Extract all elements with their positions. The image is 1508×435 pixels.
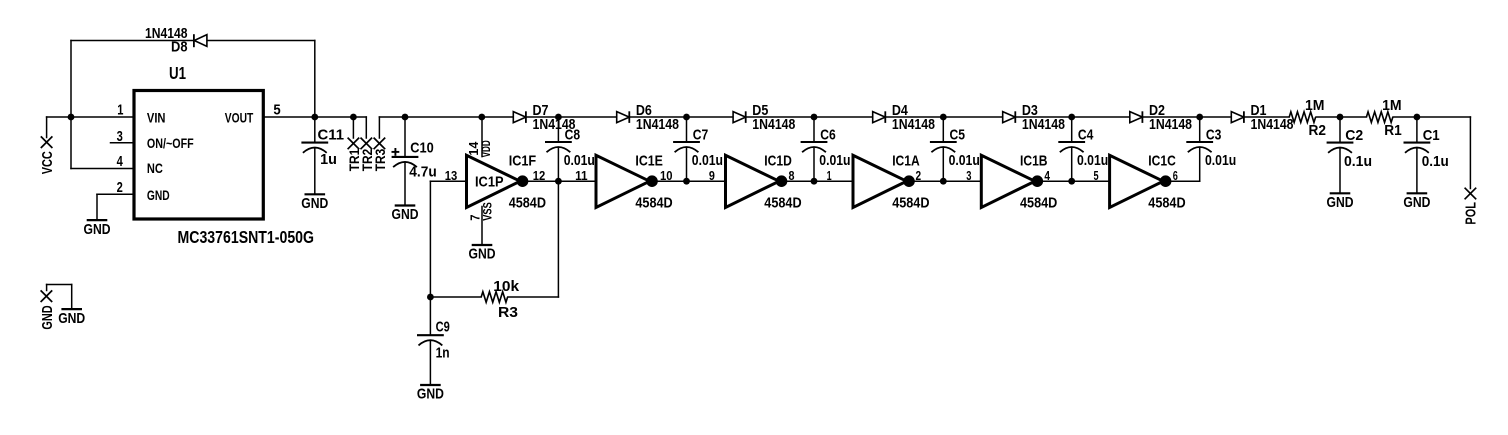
svg-text:D8: D8 — [171, 38, 188, 55]
svg-text:GND: GND — [1327, 194, 1354, 211]
svg-text:2: 2 — [916, 169, 922, 183]
svg-text:GND: GND — [301, 195, 328, 212]
svg-text:0.01u: 0.01u — [564, 152, 595, 169]
svg-text:0.01u: 0.01u — [819, 152, 850, 169]
svg-text:GND: GND — [84, 221, 111, 238]
svg-text:1N4148: 1N4148 — [752, 116, 795, 133]
svg-text:4.7u: 4.7u — [409, 163, 436, 180]
svg-text:ON/~OFF: ON/~OFF — [147, 135, 194, 151]
svg-text:IC1F: IC1F — [509, 152, 537, 169]
svg-text:1N4148: 1N4148 — [892, 116, 935, 133]
svg-text:0.1u: 0.1u — [1422, 153, 1449, 170]
svg-text:C6: C6 — [820, 126, 836, 143]
svg-text:GND: GND — [469, 246, 496, 263]
svg-text:4584D: 4584D — [892, 195, 929, 212]
svg-text:4: 4 — [1044, 169, 1050, 183]
svg-text:C4: C4 — [1078, 126, 1094, 143]
svg-text:POL: POL — [1462, 202, 1479, 225]
svg-text:1M: 1M — [1305, 97, 1325, 114]
svg-text:0.01u: 0.01u — [949, 152, 980, 169]
svg-text:C9: C9 — [436, 319, 450, 336]
svg-text:VSS: VSS — [483, 202, 495, 221]
svg-text:U1: U1 — [169, 63, 186, 83]
svg-text:GND: GND — [39, 305, 56, 329]
svg-text:IC1E: IC1E — [635, 152, 663, 169]
svg-text:C3: C3 — [1206, 126, 1222, 143]
svg-text:IC1B: IC1B — [1020, 152, 1048, 169]
svg-text:9: 9 — [709, 169, 715, 183]
svg-text:4584D: 4584D — [1148, 195, 1185, 212]
svg-text:2: 2 — [117, 179, 123, 196]
svg-text:C7: C7 — [693, 126, 709, 143]
svg-text:1u: 1u — [320, 151, 337, 168]
svg-text:4584D: 4584D — [764, 195, 801, 212]
svg-text:4584D: 4584D — [1020, 195, 1057, 212]
svg-text:10: 10 — [660, 169, 673, 183]
svg-text:5: 5 — [273, 102, 280, 119]
svg-text:R2: R2 — [1309, 122, 1327, 139]
svg-text:3: 3 — [966, 169, 971, 183]
svg-text:1: 1 — [827, 169, 832, 183]
svg-text:4584D: 4584D — [509, 195, 546, 212]
svg-text:IC1A: IC1A — [892, 152, 920, 169]
svg-text:6: 6 — [1173, 169, 1178, 183]
svg-text:NC: NC — [147, 160, 163, 176]
svg-text:3: 3 — [117, 128, 123, 145]
svg-text:C11: C11 — [318, 127, 345, 144]
svg-text:GND: GND — [392, 206, 419, 223]
svg-text:VOUT: VOUT — [225, 110, 254, 126]
svg-text:1N4148: 1N4148 — [533, 116, 576, 133]
svg-text:7: 7 — [469, 214, 483, 220]
svg-text:1: 1 — [117, 102, 123, 119]
svg-text:0.01u: 0.01u — [1077, 152, 1108, 169]
svg-text:1N4148: 1N4148 — [1251, 116, 1294, 133]
svg-text:MC33761SNT1-050G: MC33761SNT1-050G — [178, 227, 315, 247]
svg-text:11: 11 — [575, 169, 588, 183]
svg-text:13: 13 — [445, 169, 458, 183]
svg-text:TR3: TR3 — [373, 148, 388, 171]
svg-text:C1: C1 — [1423, 127, 1440, 144]
svg-text:1N4148: 1N4148 — [1149, 116, 1192, 133]
svg-text:IC1D: IC1D — [764, 152, 792, 169]
svg-text:0.01u: 0.01u — [1205, 152, 1236, 169]
svg-text:VIN: VIN — [147, 110, 166, 126]
svg-text:12: 12 — [533, 169, 546, 183]
svg-text:VCC: VCC — [39, 151, 56, 174]
svg-text:0.01u: 0.01u — [692, 152, 723, 169]
svg-text:14: 14 — [467, 142, 481, 156]
svg-text:10k: 10k — [493, 278, 519, 295]
svg-text:4: 4 — [117, 153, 124, 170]
svg-text:1N4148: 1N4148 — [1022, 116, 1065, 133]
svg-text:8: 8 — [789, 169, 795, 183]
svg-text:C2: C2 — [1345, 127, 1363, 144]
svg-text:C5: C5 — [950, 126, 966, 143]
svg-text:1N4148: 1N4148 — [636, 116, 679, 133]
svg-text:R3: R3 — [498, 304, 518, 321]
svg-text:GND: GND — [58, 310, 85, 327]
svg-text:GND: GND — [417, 386, 444, 403]
svg-text:IC1C: IC1C — [1148, 152, 1176, 169]
svg-text:R1: R1 — [1384, 122, 1402, 139]
svg-text:VDD: VDD — [481, 140, 493, 157]
svg-text:GND: GND — [1403, 194, 1430, 211]
svg-text:0.1u: 0.1u — [1344, 153, 1372, 170]
svg-text:4584D: 4584D — [635, 195, 672, 212]
svg-text:1M: 1M — [1382, 97, 1402, 114]
svg-text:GND: GND — [147, 187, 170, 203]
svg-text:IC1P: IC1P — [475, 173, 504, 190]
svg-text:5: 5 — [1094, 169, 1099, 183]
svg-text:1n: 1n — [436, 344, 450, 361]
svg-text:C10: C10 — [410, 139, 434, 156]
